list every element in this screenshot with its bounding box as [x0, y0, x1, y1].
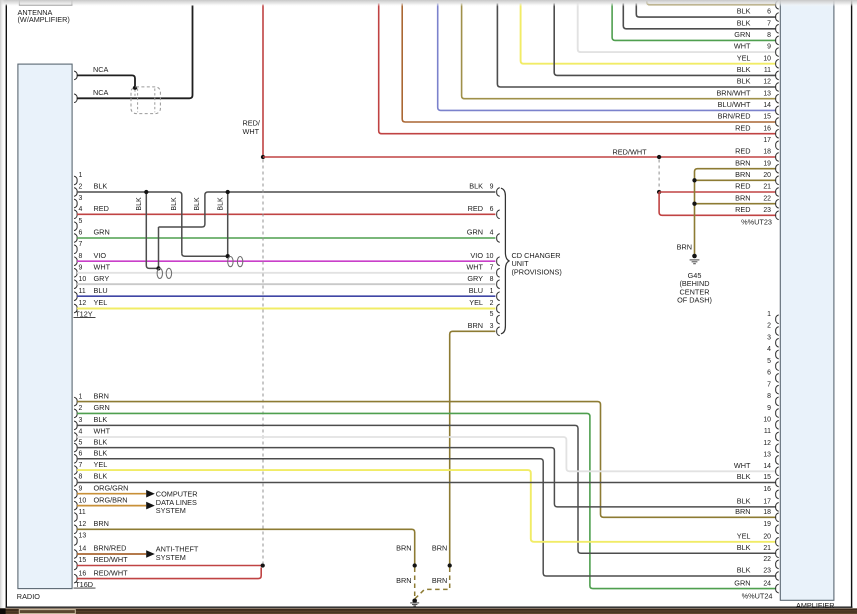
- radio T12Y pin 1 bracket: [74, 176, 77, 185]
- svg-text:VIO: VIO: [470, 251, 483, 260]
- svg-text:RADIO: RADIO: [17, 592, 40, 601]
- wire GRY (radio 10 to cd changer 8): [77, 283, 495, 285]
- svg-text:GRN: GRN: [734, 578, 750, 587]
- svg-text:11: 11: [764, 428, 771, 435]
- amp connector1 pin 9 bracket: [776, 48, 779, 57]
- svg-text:10: 10: [486, 253, 494, 260]
- amp connector1 pin 6 bracket: [776, 13, 779, 22]
- junction dot RED/WHT 15: [261, 563, 265, 567]
- radio antenna pin bracket 1: [74, 71, 77, 80]
- wire YEL (radio2-7 to amp 20): [77, 470, 776, 542]
- cd changer pin 5 bracket: [497, 315, 500, 324]
- wire BLK (radio 2, left segment): [77, 192, 182, 253]
- svg-text:BLK: BLK: [136, 197, 143, 211]
- amp connector2 pin 14 bracket: [776, 467, 779, 476]
- svg-text:8: 8: [490, 276, 494, 283]
- svg-text:BRN: BRN: [396, 544, 411, 553]
- svg-text:21: 21: [763, 545, 771, 552]
- wire BRN/RED stub + arrow: [77, 553, 146, 555]
- svg-text:15: 15: [763, 474, 771, 481]
- svg-text:GRN: GRN: [94, 403, 110, 412]
- svg-text:BLK: BLK: [737, 497, 751, 506]
- svg-text:2: 2: [490, 300, 494, 307]
- svg-text:21: 21: [763, 184, 771, 191]
- wire BLU (radio 11 to cd changer 1): [77, 295, 495, 297]
- wire BLK drop from dot2: [227, 192, 229, 256]
- radio T16D pin 4 bracket: [74, 433, 77, 442]
- amp connector1 pin 12 bracket: [776, 83, 779, 92]
- junction dot RED amp21: [657, 190, 661, 194]
- amp connector1 pin 15 bracket: [776, 118, 779, 127]
- radio T12Y pin 7 bracket: [74, 245, 77, 254]
- wire BLK (radio2-3 to amp 21): [77, 425, 776, 553]
- svg-text:3: 3: [79, 417, 83, 424]
- dashed BRN left drop to ground: [414, 568, 416, 599]
- amp connector1 pin 20 bracket: [776, 176, 779, 185]
- svg-text:13: 13: [763, 452, 771, 459]
- dashed drop short (amp 18 to 21): [658, 160, 660, 190]
- svg-text:4: 4: [79, 429, 83, 436]
- svg-text:9: 9: [767, 44, 771, 51]
- svg-text:3: 3: [490, 323, 494, 330]
- amp connector1 pin 16 bracket: [776, 129, 779, 138]
- svg-text:7: 7: [767, 381, 771, 388]
- svg-text:24: 24: [763, 580, 771, 587]
- amp connector2 pin 5 bracket: [776, 362, 779, 371]
- svg-text:3: 3: [767, 334, 771, 341]
- svg-text:%%UT23: %%UT23: [741, 218, 772, 227]
- radio T12Y pin 10 bracket: [74, 280, 77, 289]
- wire RED (top edge to amp 16): [379, 3, 776, 134]
- svg-text:23: 23: [763, 207, 771, 214]
- radio T16D pin 12 bracket: [74, 525, 77, 534]
- svg-text:RED/WHT: RED/WHT: [94, 555, 129, 564]
- svg-text:BLK: BLK: [94, 182, 108, 191]
- svg-text:10: 10: [79, 497, 87, 504]
- wire BLK jog left: [159, 224, 205, 227]
- svg-text:GRN: GRN: [467, 228, 483, 237]
- junction dot NCA: [133, 86, 137, 90]
- svg-text:YEL: YEL: [469, 298, 483, 307]
- svg-text:BRN: BRN: [94, 391, 109, 400]
- amp connector2 pin 20 bracket: [776, 537, 779, 546]
- radio T16D pin 3 bracket: [74, 421, 77, 430]
- junction dot RED/WHT right: [657, 155, 661, 159]
- amp connector2 pin 21 bracket: [776, 549, 779, 558]
- svg-text:GRN: GRN: [734, 30, 750, 39]
- svg-text:14: 14: [763, 463, 771, 470]
- junction dot RED/WHT left: [261, 155, 265, 159]
- svg-text:YEL: YEL: [737, 532, 751, 541]
- radio T16D pin 2 bracket: [74, 409, 77, 418]
- svg-text:12: 12: [763, 440, 771, 447]
- page right border: [851, 0, 853, 608]
- wire WHT (radio2-4 to amp 14): [77, 437, 776, 471]
- svg-text:6: 6: [79, 451, 83, 458]
- junction dot shield left: [156, 266, 160, 270]
- top gradient band: [0, 0, 857, 7]
- wire RED/WHT (radio2-15): [77, 565, 263, 567]
- amp connector2 pin 15 bracket: [776, 478, 779, 487]
- svg-text:RED/WHT: RED/WHT: [613, 148, 648, 157]
- radio T12Y pin 2 bracket: [74, 188, 77, 197]
- wire VIO (radio 8 to cd changer 10): [77, 260, 495, 262]
- svg-text:BRN/WHT: BRN/WHT: [716, 88, 751, 97]
- svg-text:16: 16: [79, 570, 87, 577]
- cd changer pin 10 bracket: [497, 257, 500, 266]
- amp connector2 pin 8 bracket: [776, 397, 779, 406]
- svg-text:YEL: YEL: [737, 53, 751, 62]
- radio T16D pin 8 bracket: [74, 478, 77, 487]
- svg-text:OF DASH): OF DASH): [677, 296, 712, 305]
- svg-text:BLK: BLK: [171, 197, 178, 211]
- svg-text:BRN: BRN: [735, 507, 750, 516]
- svg-text:1: 1: [79, 172, 83, 179]
- svg-text:RED: RED: [735, 205, 750, 214]
- svg-text:YEL: YEL: [94, 460, 108, 469]
- wire BRN amp 22: [695, 203, 776, 205]
- svg-text:6: 6: [767, 9, 771, 16]
- wire BRN (top edge to amp 5): [647, 2, 776, 5]
- cd changer pin 7 bracket: [497, 268, 500, 277]
- amp connector2 pin 22 bracket: [776, 560, 779, 569]
- wire BLK (cd changer 9 segment): [205, 192, 496, 224]
- wire BLK drop from dot1: [146, 192, 158, 268]
- junction dot BRN 22: [692, 202, 696, 206]
- wire BLK (top edge to amp 12): [497, 3, 775, 87]
- wire BLK jog to shield dot: [182, 253, 228, 256]
- svg-text:10: 10: [763, 55, 771, 62]
- wire BRN (radio2-12 to ground): [77, 529, 415, 565]
- svg-text:23: 23: [763, 568, 771, 575]
- svg-text:BRN: BRN: [468, 321, 483, 330]
- svg-text:15: 15: [79, 557, 87, 564]
- amp connector1 pin 5 bracket: [776, 0, 779, 9]
- junction dot BLK 2: [226, 190, 230, 194]
- svg-text:20: 20: [763, 534, 771, 541]
- wire NCA 1 (radio to antenna connector): [77, 75, 135, 86]
- amp connector2 pin 23 bracket: [776, 572, 779, 581]
- svg-text:1: 1: [767, 311, 771, 318]
- wire RED/WHT horizontal to amp 18: [263, 156, 776, 158]
- svg-text:BLK: BLK: [469, 182, 483, 191]
- svg-text:BRN: BRN: [735, 170, 750, 179]
- svg-text:NCA: NCA: [93, 65, 109, 74]
- svg-text:9: 9: [490, 184, 494, 191]
- svg-text:NCA: NCA: [93, 88, 109, 97]
- svg-text:2: 2: [79, 184, 83, 191]
- svg-text:8: 8: [79, 253, 83, 260]
- svg-text:19: 19: [763, 521, 771, 528]
- svg-text:BRN: BRN: [735, 158, 750, 167]
- svg-text:RED: RED: [735, 123, 750, 132]
- radio T16D pin 13 bracket: [74, 537, 77, 546]
- radio T12Y pin 9 bracket: [74, 268, 77, 277]
- svg-text:19: 19: [763, 160, 771, 167]
- wire BLK (radio2-5 to amp 17): [77, 448, 776, 507]
- page left border: [5, 5, 7, 608]
- svg-text:RED: RED: [94, 204, 109, 213]
- amp connector2 pin 6 bracket: [776, 374, 779, 383]
- wire GRN (radio2-2 to amp 24): [77, 413, 776, 588]
- svg-text:BRN: BRN: [396, 576, 411, 585]
- svg-text:18: 18: [763, 509, 771, 516]
- svg-text:12: 12: [79, 300, 87, 307]
- svg-text:BLK: BLK: [94, 415, 108, 424]
- amp connector2 pin 17 bracket: [776, 503, 779, 512]
- svg-text:BRN: BRN: [432, 576, 447, 585]
- svg-text:BLK: BLK: [737, 566, 751, 575]
- svg-text:%%UT24: %%UT24: [742, 592, 773, 601]
- svg-text:14: 14: [79, 546, 87, 553]
- wire BRN (radio2-1 to amp 18): [77, 402, 776, 518]
- antenna box (cropped): [19, 0, 72, 5]
- wire BRN amp 20: [695, 179, 776, 181]
- svg-text:BLK: BLK: [217, 197, 224, 211]
- radio T16D pin 16 bracket: [74, 574, 77, 583]
- radio T12Y pin 11 bracket: [74, 292, 77, 301]
- amp connector2 pin 16 bracket: [776, 490, 779, 499]
- svg-text:BRN: BRN: [432, 544, 447, 553]
- radio T12Y pin 3 bracket: [74, 199, 77, 208]
- junction dot shield right: [226, 254, 230, 258]
- wire RED to amp 23: [659, 192, 776, 215]
- svg-text:7: 7: [490, 264, 494, 271]
- wire YEL (top edge to amp 10): [521, 3, 776, 64]
- svg-text:BRN/RED: BRN/RED: [718, 112, 751, 121]
- amp connector2 pin 12 bracket: [776, 444, 779, 453]
- svg-text:BRN: BRN: [94, 519, 109, 528]
- svg-text:10: 10: [79, 276, 87, 283]
- svg-text:(W/AMPLIFIER): (W/AMPLIFIER): [18, 15, 70, 24]
- junction dot BRN left: [413, 563, 417, 567]
- junction dot BRN 20: [692, 178, 696, 182]
- ground symbol bottom: [412, 599, 417, 604]
- svg-text:BLK: BLK: [94, 437, 108, 446]
- page bottom border: [6, 606, 853, 608]
- svg-text:7: 7: [767, 20, 771, 27]
- wire RED/WHT (radio2-16): [77, 568, 261, 579]
- amp connector1 pin 7 bracket: [776, 24, 779, 33]
- amp connector2 pin 10 bracket: [776, 420, 779, 429]
- radio T16D pin 15 bracket: [74, 561, 77, 570]
- wire BLK down to left shield: [158, 227, 160, 268]
- inline connector (dashed housing): [131, 87, 160, 114]
- svg-text:BLK: BLK: [737, 18, 751, 27]
- svg-text:9: 9: [79, 485, 83, 492]
- svg-text:BRN: BRN: [677, 242, 692, 251]
- svg-text:5: 5: [79, 218, 83, 225]
- svg-text:RED: RED: [735, 182, 750, 191]
- cd changer pin 1 bracket: [497, 292, 500, 301]
- svg-text:12: 12: [79, 521, 87, 528]
- svg-text:GRN: GRN: [94, 228, 110, 237]
- wire GRN (top edge to amp 8): [612, 3, 776, 40]
- wire BRN amp 19 + vertical: [695, 169, 776, 256]
- wire BRN/WHT (top edge to amp 13): [462, 3, 776, 99]
- amp connector1 pin 17 bracket: [776, 141, 779, 150]
- cd changer pin 9 bracket: [497, 188, 500, 197]
- svg-text:BLK: BLK: [737, 65, 751, 74]
- svg-text:RED: RED: [468, 204, 483, 213]
- svg-text:8: 8: [767, 32, 771, 39]
- svg-text:BLK: BLK: [737, 77, 751, 86]
- amp connector2 pin 13 bracket: [776, 456, 779, 465]
- svg-text:BLK: BLK: [737, 543, 751, 552]
- radio T16D pin 5 bracket: [74, 443, 77, 452]
- amp connector1 pin 19 bracket: [776, 164, 779, 173]
- amp connector1 pin 18 bracket: [776, 153, 779, 162]
- junction dot BRN right: [448, 563, 452, 567]
- svg-text:9: 9: [79, 264, 83, 271]
- svg-text:16: 16: [763, 486, 771, 493]
- svg-text:7: 7: [79, 462, 83, 469]
- svg-text:12: 12: [763, 79, 771, 86]
- svg-text:8: 8: [79, 474, 83, 481]
- svg-text:WHT: WHT: [466, 262, 483, 271]
- svg-text:WHT: WHT: [734, 461, 751, 470]
- radio antenna pin bracket 2: [74, 94, 77, 103]
- svg-text:1: 1: [79, 393, 83, 400]
- svg-text:SYSTEM: SYSTEM: [156, 506, 186, 515]
- wire RED/WHT vertical from top: [262, 5, 264, 158]
- svg-text:17: 17: [763, 137, 771, 144]
- wire BLK (top edge to amp 11): [554, 3, 775, 75]
- svg-text:WHT: WHT: [243, 127, 260, 136]
- amp connector1 pin 13 bracket: [776, 94, 779, 103]
- wire NCA 2 (radio to top edge): [77, 5, 193, 98]
- amplifier U2 box: [780, 0, 834, 600]
- svg-text:(PROVISIONS): (PROVISIONS): [512, 267, 562, 276]
- wire BLK (top edge to amp 6): [636, 3, 775, 17]
- svg-text:22: 22: [763, 195, 771, 202]
- cd changer pin 4 bracket: [497, 234, 500, 243]
- svg-text:GRY: GRY: [94, 274, 110, 283]
- svg-text:3: 3: [79, 195, 83, 202]
- shield rings on WHT wire: [157, 268, 162, 278]
- svg-text:13: 13: [763, 90, 771, 97]
- svg-text:ORG/BRN: ORG/BRN: [94, 495, 128, 504]
- svg-text:17: 17: [763, 499, 771, 506]
- radio T16D pin 14 bracket: [74, 550, 77, 559]
- amp connector2 pin 2 bracket: [776, 327, 779, 336]
- wire BLK (top edge to amp 7): [623, 3, 775, 29]
- svg-text:13: 13: [79, 533, 87, 540]
- svg-text:BLK: BLK: [94, 472, 108, 481]
- bottom toolbar (wood texture): [0, 608, 857, 614]
- svg-text:RED/WHT: RED/WHT: [94, 568, 129, 577]
- svg-text:11: 11: [79, 288, 86, 295]
- radio T12Y pin 6 bracket: [74, 234, 77, 243]
- cd changer pin 8 bracket: [497, 280, 500, 289]
- radio T16D pin 7 bracket: [74, 466, 77, 475]
- wire RED to amp 21: [659, 191, 776, 193]
- radio T16D pin 10 bracket: [74, 501, 77, 510]
- svg-text:11: 11: [79, 509, 86, 516]
- svg-text:GRY: GRY: [467, 274, 483, 283]
- radio T16D pin 9 bracket: [74, 489, 77, 498]
- svg-text:8: 8: [767, 393, 771, 400]
- amp connector1 pin 10 bracket: [776, 59, 779, 68]
- svg-text:11: 11: [764, 67, 771, 74]
- wire WHT (radio 9 to cd changer 7): [77, 272, 495, 274]
- amp connector2 pin 19 bracket: [776, 525, 779, 534]
- svg-text:WHT: WHT: [734, 42, 751, 51]
- junction dot BLK 1: [144, 190, 148, 194]
- amp connector2 pin 4 bracket: [776, 350, 779, 359]
- radio T16D pin 6 bracket: [74, 454, 77, 463]
- radio U1 box: [18, 64, 72, 589]
- amp connector1 pin 22 bracket: [776, 199, 779, 208]
- shield rings on VIO wire: [228, 257, 233, 267]
- cd changer pin 6 bracket: [497, 210, 500, 219]
- amp connector2 pin 11 bracket: [776, 432, 779, 441]
- svg-text:BLU/WHT: BLU/WHT: [718, 100, 751, 109]
- svg-text:BRN: BRN: [735, 193, 750, 202]
- svg-text:20: 20: [763, 172, 771, 179]
- svg-text:BLK: BLK: [737, 7, 751, 16]
- wire BLK (radio2-6 to amp 23): [77, 459, 776, 576]
- amp connector1 pin 11 bracket: [776, 71, 779, 80]
- svg-text:14: 14: [763, 102, 771, 109]
- svg-text:15: 15: [763, 114, 771, 121]
- svg-text:BLU: BLU: [469, 286, 483, 295]
- svg-text:4: 4: [490, 230, 494, 237]
- svg-text:BLK: BLK: [94, 449, 108, 458]
- svg-text:RED: RED: [735, 147, 750, 156]
- dashed drop long (to radio 15): [262, 160, 264, 564]
- svg-text:4: 4: [767, 346, 771, 353]
- wire WHT (top edge to amp 9): [578, 3, 776, 52]
- svg-text:BLK: BLK: [194, 197, 201, 211]
- wire BRN/RED (top edge to amp 15): [402, 3, 775, 122]
- wire YEL (radio 12 to cd changer 2): [77, 308, 495, 310]
- svg-text:5: 5: [767, 358, 771, 365]
- svg-text:9: 9: [767, 405, 771, 412]
- wire RED (radio 4 to cd changer 6): [77, 213, 495, 215]
- svg-text:BRN/RED: BRN/RED: [94, 544, 127, 553]
- amp connector2 pin 7 bracket: [776, 385, 779, 394]
- ground G45 symbol: [692, 254, 697, 259]
- svg-text:ORG/GRN: ORG/GRN: [94, 483, 129, 492]
- radio T12Y pin 12 bracket: [74, 304, 77, 313]
- svg-text:5: 5: [490, 311, 494, 318]
- wire ORG/GRN stub + arrow: [77, 493, 146, 495]
- svg-text:2: 2: [79, 405, 83, 412]
- svg-text:16: 16: [763, 125, 771, 132]
- svg-text:2: 2: [767, 323, 771, 330]
- svg-text:WHT: WHT: [94, 427, 111, 436]
- cd changer pin 2 bracket: [497, 304, 500, 313]
- svg-text:BLK: BLK: [737, 472, 751, 481]
- cd changer pin 3 bracket: [497, 327, 500, 336]
- wire BRN (cd changer 3 down): [450, 331, 496, 565]
- amp connector1 pin 14 bracket: [776, 106, 779, 115]
- amp connector1 pin 8 bracket: [776, 36, 779, 45]
- radio T16D pin 1 bracket: [74, 397, 77, 406]
- amp connector2 pin 18 bracket: [776, 513, 779, 522]
- svg-text:18: 18: [763, 149, 771, 156]
- amp connector2 pin 1 bracket: [776, 315, 779, 324]
- left gradient band: [0, 0, 5, 614]
- radio T16D pin 11 bracket: [74, 513, 77, 522]
- cd changer brace: [501, 188, 509, 334]
- svg-text:4: 4: [79, 206, 83, 213]
- svg-text:7: 7: [79, 241, 83, 248]
- amp connector1 pin 23 bracket: [776, 211, 779, 220]
- svg-text:22: 22: [763, 556, 771, 563]
- svg-text:WHT: WHT: [94, 262, 111, 271]
